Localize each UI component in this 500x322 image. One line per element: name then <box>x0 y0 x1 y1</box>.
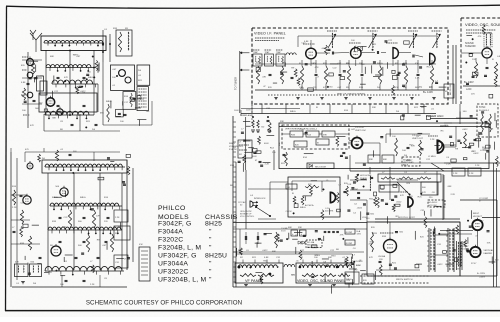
svg-text:8H25: 8H25 <box>205 221 222 228</box>
svg-text:47K: 47K <box>30 125 34 127</box>
svg-text:UF3202C: UF3202C <box>158 269 189 276</box>
svg-text:IMEG: IMEG <box>73 54 79 56</box>
svg-text:+400V: +400V <box>479 277 486 279</box>
svg-text:LTC: LTC <box>418 87 423 89</box>
svg-text:TO TUNER: TO TUNER <box>234 77 238 90</box>
svg-text:L240: L240 <box>466 88 472 91</box>
svg-text:68K: 68K <box>50 56 54 58</box>
svg-text:47K: 47K <box>15 262 19 264</box>
svg-text:2.2K: 2.2K <box>430 139 435 141</box>
svg-text:2.2K: 2.2K <box>450 194 455 196</box>
svg-text:VOL CONTROL: VOL CONTROL <box>229 146 244 148</box>
svg-text:VERT OSC: VERT OSC <box>355 130 367 132</box>
svg-text:SYNC: SYNC <box>479 107 486 109</box>
svg-text:BACK: BACK <box>403 163 409 166</box>
svg-text:68K: 68K <box>288 227 292 229</box>
svg-text:COOK: COOK <box>286 211 293 213</box>
svg-text:PHILCO: PHILCO <box>158 205 186 212</box>
svg-text:135V: 135V <box>357 234 362 236</box>
svg-text:IMEG: IMEG <box>314 255 320 257</box>
svg-text:.0022: .0022 <box>262 250 268 252</box>
svg-text:100V: 100V <box>246 110 251 112</box>
svg-text:68K: 68K <box>100 113 104 115</box>
svg-text:": " <box>209 229 212 236</box>
svg-text:2.2K: 2.2K <box>115 217 120 219</box>
svg-text:VIDEO, OSC, SOUN: VIDEO, OSC, SOUN <box>465 22 500 27</box>
svg-text:47K: 47K <box>400 195 404 197</box>
svg-text:F3042F, G: F3042F, G <box>158 221 192 228</box>
svg-text:39K: 39K <box>115 233 119 235</box>
svg-text:WIDTH SWITCH: WIDTH SWITCH <box>396 279 413 281</box>
svg-text:TAKEOFF: TAKEOFF <box>465 45 476 48</box>
svg-text:2.2K: 2.2K <box>453 173 458 175</box>
svg-text:": " <box>209 277 212 284</box>
svg-text:.0022: .0022 <box>462 129 468 131</box>
svg-text:39K: 39K <box>280 121 284 123</box>
svg-text:": " <box>209 269 212 276</box>
svg-text:47K: 47K <box>64 77 68 79</box>
svg-text:2.2K: 2.2K <box>90 284 95 286</box>
svg-text:L2 MEG: L2 MEG <box>428 156 436 158</box>
svg-text:HOR PULL CONT: HOR PULL CONT <box>398 217 416 219</box>
svg-text:VERT OUT: VERT OUT <box>412 138 424 140</box>
svg-text:F3202C: F3202C <box>158 237 183 244</box>
svg-text:IMEG: IMEG <box>88 77 94 79</box>
svg-text:2.2K: 2.2K <box>446 164 451 166</box>
svg-text:": " <box>209 261 212 268</box>
svg-text:2.2K: 2.2K <box>265 164 270 166</box>
svg-text:VERTICAL: VERTICAL <box>484 249 495 252</box>
svg-text:47K: 47K <box>96 215 100 217</box>
svg-text:VOL CONTROL: VOL CONTROL <box>240 216 255 218</box>
svg-text:TRAP: TRAP <box>265 51 271 54</box>
svg-text:3MEG: 3MEG <box>229 143 235 145</box>
svg-text:30-4603-2: 30-4603-2 <box>479 110 490 112</box>
svg-text:IOK: IOK <box>487 242 491 244</box>
svg-text:600V: 600V <box>264 143 269 145</box>
svg-text:IB3GT: IB3GT <box>473 213 480 215</box>
svg-text:UF3044A: UF3044A <box>158 261 188 268</box>
svg-text:68K: 68K <box>483 148 487 150</box>
svg-text:INTERLOCK: INTERLOCK <box>254 198 266 200</box>
svg-text:UF3042F, G: UF3042F, G <box>158 253 197 260</box>
svg-text:.0022: .0022 <box>396 202 402 204</box>
svg-text:68K: 68K <box>383 159 387 161</box>
svg-text:47K: 47K <box>323 87 327 89</box>
svg-text:IMEG: IMEG <box>290 111 296 113</box>
svg-text:47K: 47K <box>315 67 319 69</box>
svg-text:3.5A 7W: 3.5A 7W <box>229 148 237 151</box>
svg-text:68K: 68K <box>364 274 368 276</box>
svg-text:IMEG: IMEG <box>300 207 306 209</box>
svg-text:4.7M: 4.7M <box>356 265 361 267</box>
svg-text:2.2K: 2.2K <box>12 207 17 209</box>
svg-text:.0022: .0022 <box>437 264 443 266</box>
svg-text:B+ 285V: B+ 285V <box>477 273 486 275</box>
svg-text:TUNER AGC: TUNER AGC <box>240 114 253 117</box>
svg-text:47K: 47K <box>346 280 350 282</box>
svg-text:": " <box>209 245 212 252</box>
svg-text:39K: 39K <box>298 227 302 229</box>
svg-text:IOK: IOK <box>139 244 143 246</box>
svg-text:2.2K: 2.2K <box>475 165 480 167</box>
svg-text:HV RECT: HV RECT <box>473 216 483 218</box>
svg-text:PART OF CHASSIS WIRING: PART OF CHASSIS WIRING <box>337 93 365 96</box>
svg-text:R7 47: R7 47 <box>471 263 477 265</box>
svg-text:USO8A: USO8A <box>378 255 386 258</box>
svg-text:68K: 68K <box>52 117 56 119</box>
svg-text:SCHEMATIC COURTESY OF PHILCO C: SCHEMATIC COURTESY OF PHILCO CORPORATION <box>86 300 242 307</box>
svg-text:.0022: .0022 <box>357 207 363 209</box>
svg-text:B+ 140V: B+ 140V <box>423 90 433 94</box>
svg-text:39K: 39K <box>323 135 327 137</box>
svg-text:47K: 47K <box>262 77 266 79</box>
svg-text:IOK: IOK <box>395 87 399 89</box>
svg-text:VIDEO, OSC, SOUND PANEL: VIDEO, OSC, SOUND PANEL <box>297 279 345 283</box>
svg-text:2.2K: 2.2K <box>415 78 420 80</box>
svg-text:IOK: IOK <box>62 226 66 228</box>
svg-text:TRAP: TRAP <box>276 51 282 54</box>
svg-text:47K: 47K <box>340 235 344 237</box>
svg-text:68K: 68K <box>448 186 452 188</box>
svg-text:6.8K: 6.8K <box>264 257 269 259</box>
svg-text:SEL DIODE: SEL DIODE <box>315 166 327 168</box>
svg-text:UF3204B, L, M: UF3204B, L, M <box>158 277 206 284</box>
svg-text:F3044A: F3044A <box>158 229 183 236</box>
svg-text:100V: 100V <box>234 110 239 112</box>
svg-text:IKCOMP: IKCOMP <box>346 232 354 234</box>
svg-text:IKCOMP: IKCOMP <box>346 243 354 245</box>
svg-text:F3204B, L, M: F3204B, L, M <box>158 245 201 252</box>
svg-text:VIDEO I.F. PANEL: VIDEO I.F. PANEL <box>254 32 286 36</box>
svg-text:47K: 47K <box>369 257 373 259</box>
svg-text:IOK: IOK <box>348 184 352 186</box>
svg-text:8H25U: 8H25U <box>205 253 227 260</box>
svg-text:": " <box>209 237 212 244</box>
svg-text:IOOO: IOOO <box>281 231 286 233</box>
svg-text:TRAP: TRAP <box>253 51 259 54</box>
svg-text:2.2K: 2.2K <box>469 173 474 175</box>
svg-text:.0022: .0022 <box>473 153 479 155</box>
svg-text:1/2 6CG7: 1/2 6CG7 <box>355 127 365 129</box>
svg-text:DAMPER: DAMPER <box>484 252 493 255</box>
svg-text:47K: 47K <box>422 192 426 194</box>
svg-text:6.8K: 6.8K <box>21 82 26 84</box>
svg-text:SO-4505-2: SO-4505-2 <box>429 202 438 204</box>
svg-text:39K: 39K <box>369 159 373 161</box>
svg-text:39K: 39K <box>372 107 376 109</box>
svg-text:400V: 400V <box>252 156 257 158</box>
svg-text:IMEG: IMEG <box>80 197 86 199</box>
svg-text:AO MICA: AO MICA <box>305 204 314 207</box>
svg-text:AM CHOKE: AM CHOKE <box>449 83 452 95</box>
